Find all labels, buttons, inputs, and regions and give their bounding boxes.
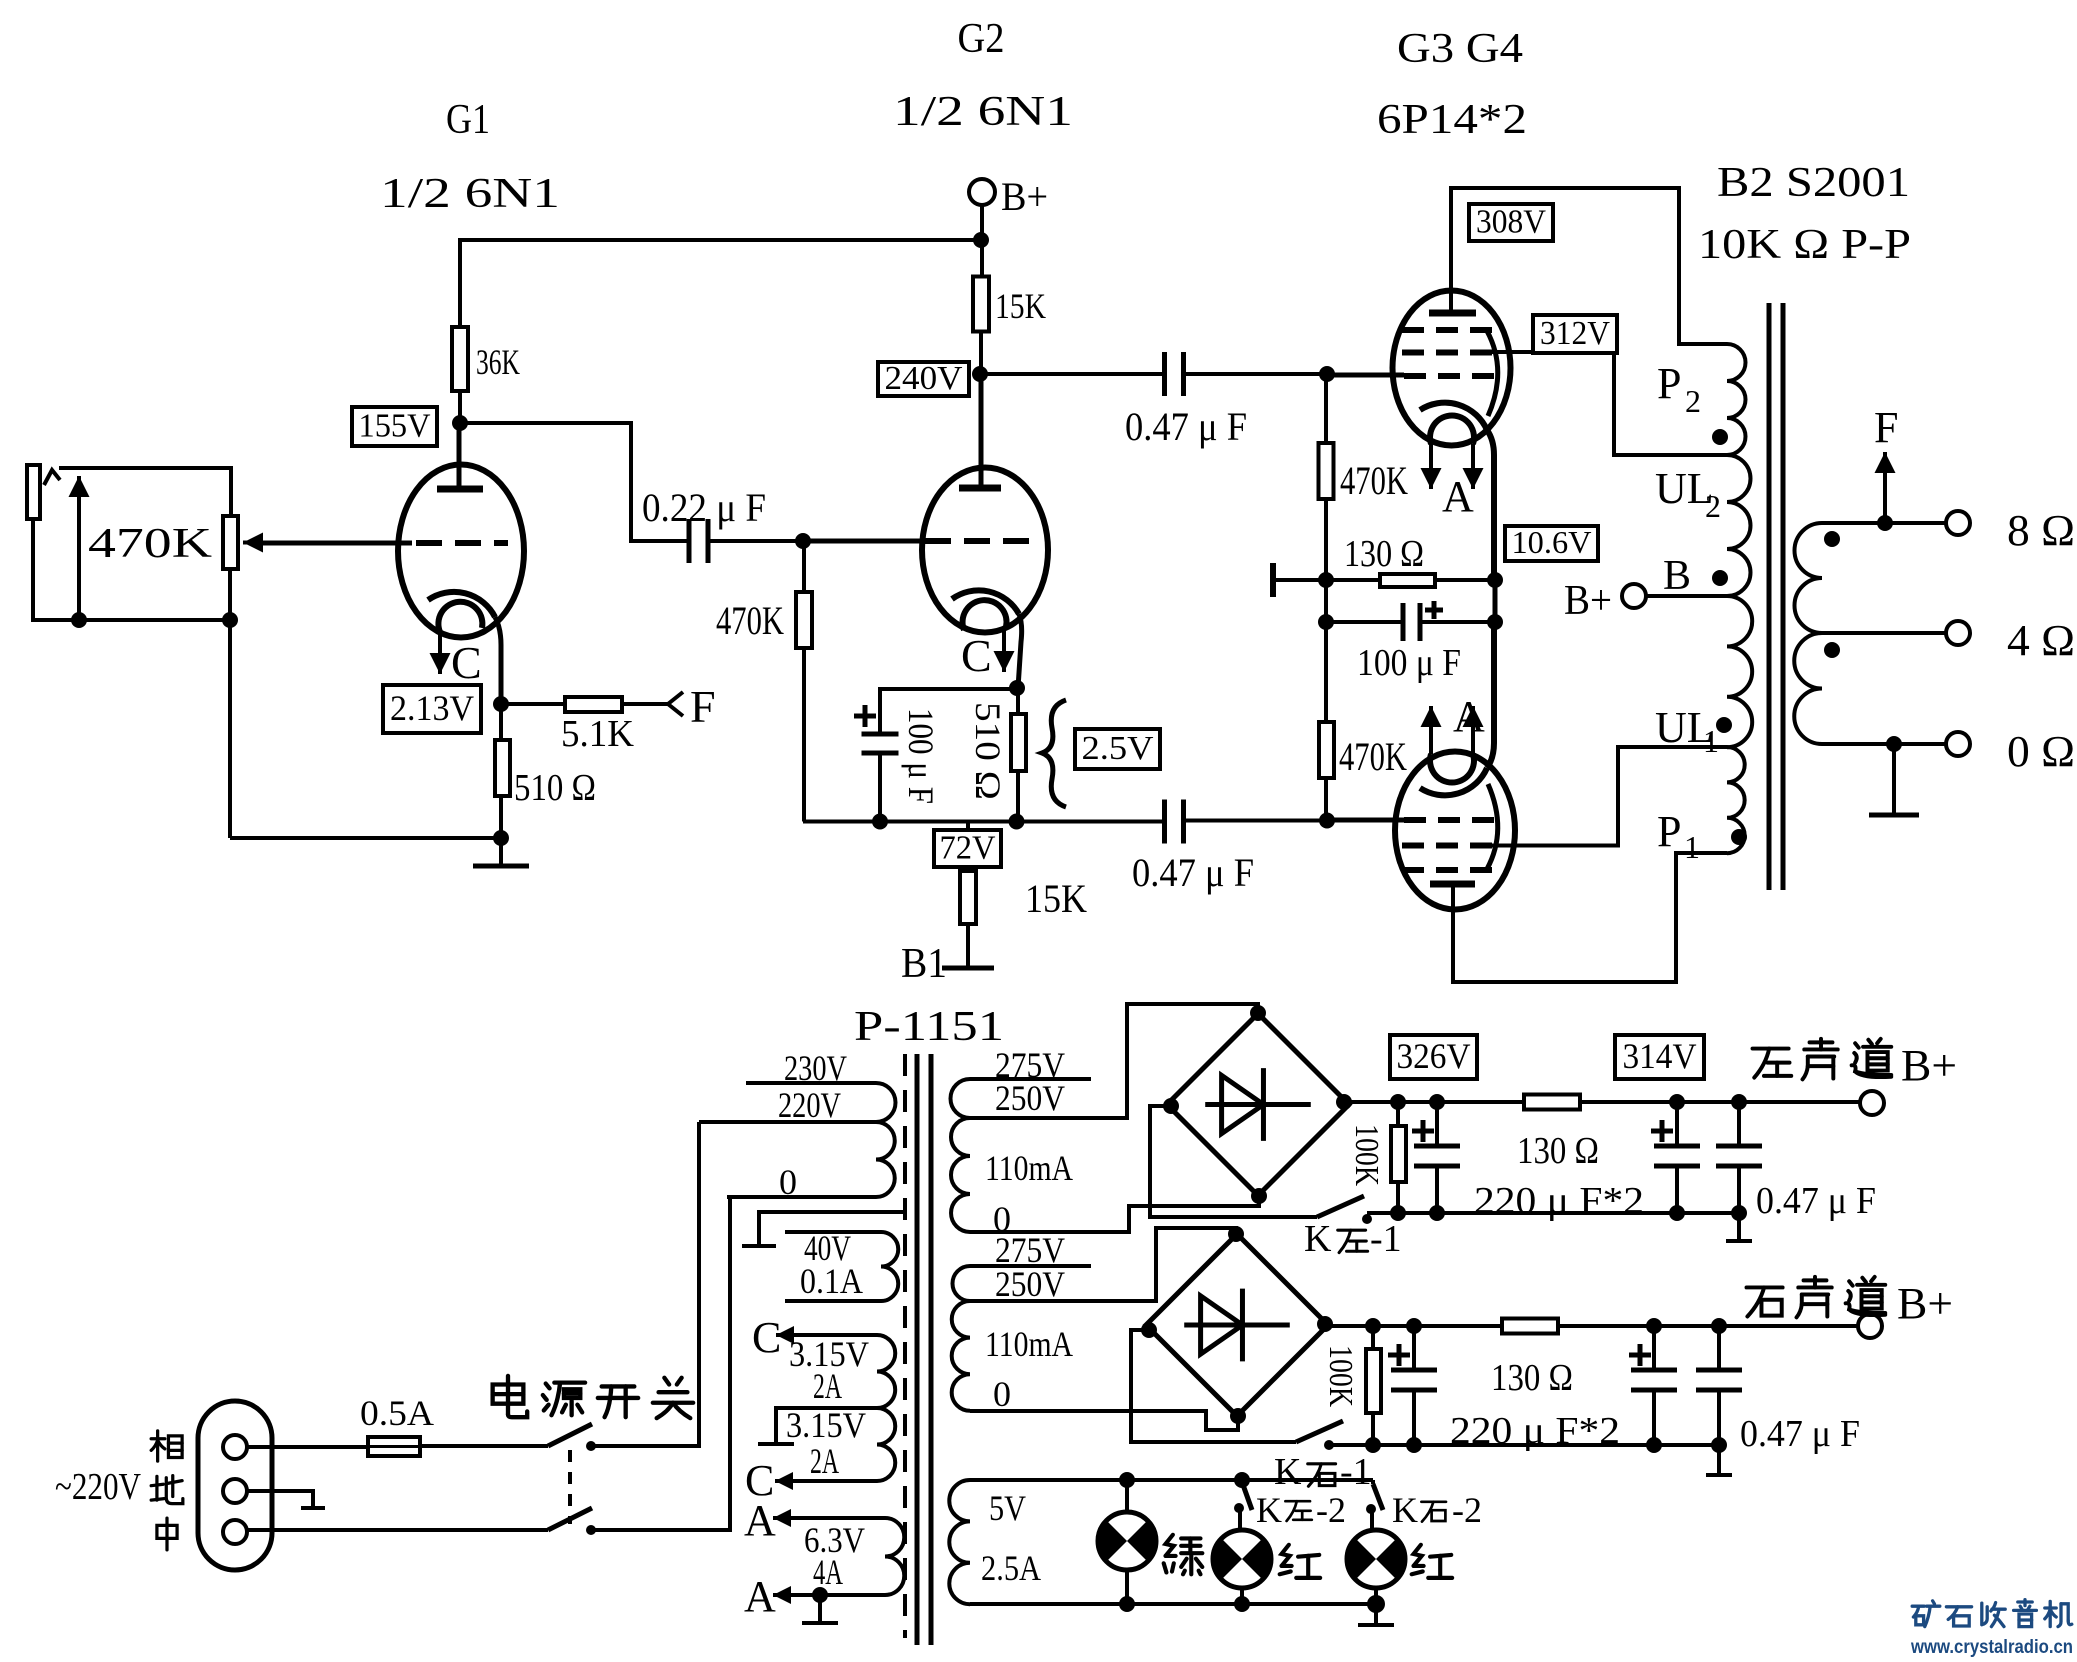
svg-text:0.47 μ F: 0.47 μ F [1756,1180,1876,1222]
svg-text:-2: -2 [1316,1490,1346,1530]
P1 polarity dot [1731,829,1747,845]
svg-text:4A: 4A [813,1552,843,1592]
voltage box 326V [1390,1035,1477,1079]
svg-text:B+: B+ [1564,578,1612,624]
capacitor 220uF-2 left [1669,1094,1685,1110]
HT1 275V tap [970,1077,1091,1081]
heater center tap ground [776,1408,877,1444]
svg-text:0: 0 [993,1374,1011,1414]
svg-text:0.1A: 0.1A [800,1261,863,1301]
G3 cathode lead [1487,430,1494,580]
wire R8 to 130ohm node [1324,499,1328,580]
node heater ground [812,1587,828,1603]
svg-text:314V: 314V [1623,1036,1697,1076]
svg-text:1/2 6N1: 1/2 6N1 [893,89,1073,135]
B1 core [903,1054,907,1638]
svg-text:B: B [1663,553,1691,599]
resistor R5 15K [980,240,984,277]
wire R9 top to 100uF node [1324,622,1328,722]
HT1 winding [951,1079,971,1118]
svg-text:3.15V: 3.15V [786,1405,866,1445]
node 130ohm left [1318,572,1334,588]
wire cathode bus G1 [499,796,503,838]
svg-text:100K: 100K [1348,1124,1385,1186]
wire switch pole1 to 220V tap [591,1122,699,1446]
G3 suppressor arc [1487,331,1498,416]
switch K-left-1 [1317,1196,1364,1217]
potentiometer RP1 470K [223,516,238,569]
svg-text:F: F [1874,403,1898,452]
svg-text:A: A [744,1496,776,1545]
svg-text:130 Ω: 130 Ω [1491,1357,1573,1399]
svg-text:C: C [961,630,992,681]
svg-text:A: A [744,1572,776,1621]
HT2 0 tap [970,1411,1238,1430]
svg-text:470K: 470K [1340,458,1408,503]
svg-text:5V: 5V [989,1488,1026,1528]
svg-text:4 Ω: 4 Ω [2007,616,2075,665]
svg-text:0.47 μ F: 0.47 μ F [1125,404,1247,449]
node ground junction G1 [493,830,509,846]
svg-text:A: A [1442,472,1474,521]
wire lower rail to C4 [1017,820,1166,824]
node 240V [972,366,988,382]
voltage box 308V [1469,204,1553,241]
svg-text:15K: 15K [1025,876,1087,921]
B1 primary 230V tap [746,1081,876,1085]
ground G1 [499,838,503,866]
svg-text:1: 1 [1703,723,1719,759]
winding 6.3V [885,1518,904,1595]
resistor R10 130 ohm [1327,578,1380,582]
node C2 bottom [872,814,888,830]
G3 grid dashes [1402,327,1492,333]
G3 heater arrows A [1429,444,1433,489]
switch K-left-2 [1234,1472,1250,1488]
wire cathode to bypass cap [880,689,1017,734]
0 tap [727,1195,876,1199]
B2 primary winding P2 section [1727,344,1746,455]
voltage box 2.13V [383,685,481,733]
node G1 cathode 2.13V [493,696,509,712]
power switch label [493,1376,528,1417]
ground speaker [1892,744,1896,815]
svg-text:0: 0 [779,1162,797,1202]
ground right filter [1717,1445,1721,1475]
winding 3.15V upper [877,1335,895,1408]
switch K-right-2 [1371,1480,1375,1484]
wire G3 plate to transformer top [1451,188,1727,344]
G4 suppressor arc [1487,784,1498,869]
G4 cathode arc [1420,768,1487,795]
node 155V [452,415,468,431]
fuse 0.5A [247,1445,368,1449]
svg-text:2.13V: 2.13V [390,688,474,728]
wire neutral to switch pole2 [247,1528,548,1532]
feedback terminal F fork [668,692,683,716]
lamp L1 green [1119,1472,1135,1488]
HT2 275V tap [970,1264,1091,1268]
voltage box 10.6V [1505,526,1598,561]
svg-text:8 Ω: 8 Ω [2007,506,2075,555]
B1 primary winding upper [876,1083,896,1122]
svg-text:1/2 6N1: 1/2 6N1 [380,171,560,217]
svg-text:www.crystalradio.cn: www.crystalradio.cn [1910,1637,2073,1657]
G1 cathode lead [495,617,501,704]
input jack J1 [27,465,40,519]
bottom rail G2 [803,820,1167,824]
bridge rectifier D1 left channel [1167,1014,1349,1196]
capacitor C1 0.22uF [689,519,708,563]
svg-text:220V: 220V [778,1085,841,1125]
B2 primary winding UL2 section [1727,455,1750,596]
right channel +rail [1325,1324,1870,1328]
svg-text:K: K [1304,1218,1332,1260]
svg-text:B+: B+ [1001,174,1048,219]
wire R6 to bottom rail [1016,771,1020,822]
grid dashes G1 [416,540,508,546]
svg-text:1: 1 [1684,829,1700,865]
brace 2.5V [1042,700,1066,807]
svg-text:2.5A: 2.5A [981,1548,1041,1588]
svg-text:5.1K: 5.1K [561,713,635,755]
G3 cathode arc [1420,403,1487,430]
svg-text:~220V: ~220V [55,1466,141,1508]
node 130ohm right [1487,572,1503,588]
capacitor 0.47uF right [1711,1318,1727,1334]
wire 0V rail right channel [1329,1443,1719,1447]
svg-text:130 Ω: 130 Ω [1344,533,1424,575]
G4 heater arrows A [1429,706,1433,754]
ground G2 divider [966,924,970,968]
winding 3.15V lower [877,1408,895,1481]
node C5 right [1487,614,1503,630]
capacitor C5 100uF cathode [1327,620,1403,624]
terminal B+ top [969,179,995,205]
tube G3 envelope [1393,291,1511,446]
8 ohm tap [1822,521,1946,525]
svg-text:-2: -2 [1452,1490,1482,1530]
svg-text:0.47 μ F: 0.47 μ F [1740,1413,1860,1455]
node C5 left [1318,614,1334,630]
node 0 ohm ground [1886,736,1902,752]
mains labels [151,1431,182,1461]
svg-text:P: P [1657,359,1681,408]
terminal left channel B+ [1860,1091,1884,1115]
wire switch pole2 to 0 tap [591,1197,730,1530]
svg-text:0.5A: 0.5A [360,1393,434,1433]
G1 cathode arc [428,592,495,617]
svg-text:B+: B+ [1897,1279,1953,1328]
lamp L3 red label [1412,1545,1452,1578]
svg-text:G2: G2 [958,16,1005,62]
svg-text:0.22 μ F: 0.22 μ F [642,485,766,530]
svg-text:100K: 100K [1322,1345,1359,1407]
resistor R2 5.1K [565,697,622,712]
voltage box 72V [966,822,970,872]
svg-text:0.47 μ F: 0.47 μ F [1132,850,1254,895]
wire D2 negative to switch [1131,1330,1296,1442]
svg-text:G3 G4: G3 G4 [1397,26,1523,72]
wire jack bottom to ground bus [33,519,230,620]
resistor R7 15K lower [960,871,976,924]
node R6 bottom [1009,814,1025,830]
node lamp ground [1367,1595,1385,1613]
wire top rail G1-G2 [460,240,983,423]
svg-text:100 μ F: 100 μ F [1357,642,1461,684]
svg-text:110mA: 110mA [985,1324,1073,1364]
capacitor 220uF-2 right [1646,1318,1662,1334]
resistor R6 510 ohm G2 [1016,688,1020,714]
secondary polarity dots [1824,531,1840,547]
node pot bottom junction [222,612,238,628]
node G2 cathode [1009,680,1025,696]
node B+ rail [973,232,989,248]
svg-text:2.5V: 2.5V [1082,730,1154,767]
wire pot bottom down to cathode bus [228,569,232,838]
B tap B+ terminal [1622,584,1646,608]
svg-text:250V: 250V [995,1078,1065,1118]
wire jack top to pot [59,468,231,516]
heater tap A1 [773,1516,885,1520]
svg-text:K: K [1392,1490,1418,1530]
node feedback F [1877,515,1893,531]
svg-text:308V: 308V [1476,204,1546,241]
svg-text:K: K [1274,1451,1302,1493]
wire cathode column [1324,580,1328,622]
svg-text:K: K [1256,1490,1282,1530]
shield ground [759,1212,905,1246]
wire 0V rail left channel [1367,1211,1739,1215]
svg-text:B2 S2001: B2 S2001 [1717,160,1910,206]
wire 15K to 240V node [979,332,983,375]
switch K-right-1 [1296,1421,1343,1442]
jack arrow [77,476,81,620]
G2 cathode arc [952,590,1019,614]
resistor R9 470K G4 grid [1324,778,1328,820]
resistor R4 470K grid G2 [802,541,806,592]
svg-text:10K Ω P-P: 10K Ω P-P [1698,222,1911,268]
lamp winding 5V [970,1478,1373,1482]
svg-text:312V: 312V [1540,315,1610,352]
G2 plate lead [979,374,984,488]
resistor R8 470K G3 grid [1324,374,1328,443]
svg-text:10.6V: 10.6V [1512,524,1592,560]
G4 plate bar [1430,881,1475,888]
G4 cathode lead [1487,622,1494,768]
svg-text:2A: 2A [813,1366,842,1406]
svg-text:240V: 240V [885,360,963,397]
mains plug [198,1401,272,1570]
HT1 250V tap [970,1004,1258,1118]
tube G2 envelope [922,468,1048,633]
svg-text:2: 2 [1705,488,1721,524]
left channel +rail [1344,1100,1872,1104]
svg-text:2A: 2A [810,1441,839,1481]
voltage box 240V [878,362,969,396]
G1 plate [457,423,462,489]
power switch pole1 [548,1424,592,1446]
4 ohm tap [1822,631,1946,635]
svg-text:F: F [690,681,716,732]
svg-text:470K: 470K [88,521,212,567]
UL1 polarity dot [1716,717,1732,733]
B2 core [1769,303,1783,890]
resistor 130 ohm right [1502,1319,1558,1334]
G4 screen wire to UL1 [1480,747,1727,846]
voltage box 155V [352,407,437,446]
capacitor C4 0.47uF lower [1165,800,1184,844]
pot wiper arrow [243,541,330,545]
bridge rectifier D2 right channel [1146,1234,1328,1416]
voltage box 312V [1533,315,1617,353]
svg-text:B1: B1 [901,941,947,987]
heater tap C2 [775,1479,877,1483]
svg-text:C: C [451,637,482,688]
svg-text:110mA: 110mA [985,1148,1073,1188]
capacitor 220uF-1 right [1406,1318,1422,1334]
svg-text:510 Ω: 510 Ω [514,767,596,809]
svg-text:A: A [1453,692,1485,741]
G2 cathode lead [1018,614,1022,688]
lamp L2 red [1238,1508,1242,1530]
svg-text:P-1151: P-1151 [854,1004,1004,1050]
220V tap [699,1120,876,1124]
wire G1 grid [250,541,412,546]
capacitor 0.47uF left [1731,1094,1747,1110]
svg-text:-1: -1 [1370,1218,1402,1260]
svg-text:250V: 250V [995,1264,1065,1304]
0 ohm tap [1822,742,1946,746]
wire C4 to G4 grid [1184,819,1328,823]
wire C3 to G3 grid [1184,372,1328,376]
svg-text:220 μ F*2: 220 μ F*2 [1450,1410,1620,1452]
svg-text:72V: 72V [940,830,996,867]
svg-text:220 μ F*2: 220 μ F*2 [1474,1180,1644,1222]
wire R4 to bottom rail [802,648,806,822]
node G3 grid [1319,366,1335,382]
wire cathode to 5.1K [501,702,565,706]
svg-text:B+: B+ [1901,1041,1957,1090]
G3 screen wire to 312V UL2 [1480,352,1727,455]
svg-text:100 μ F: 100 μ F [901,708,941,804]
resistor 100K right [1365,1318,1381,1334]
capacitor C2 100uF bypass [862,734,899,753]
resistor 130 ohm left [1524,1095,1580,1110]
heater tap C1 [776,1333,877,1337]
node G4 grid [1319,813,1335,829]
svg-text:155V: 155V [359,408,431,445]
HT1 0 tap [970,1196,1259,1232]
G2 plate bar [959,485,1001,492]
terminal right channel B+ [1858,1314,1882,1338]
svg-text:130 Ω: 130 Ω [1517,1130,1599,1172]
wire D1 negative to switch [1150,1106,1317,1217]
G2 cathode arrow C [1002,630,1006,672]
capacitor C3 0.47uF upper [1165,352,1184,396]
B2 primary winding UL1 section [1727,747,1745,853]
voltage box 314V [1615,1035,1704,1079]
node G2 grid [795,533,811,549]
resistor R3 510 ohm [499,704,503,740]
HT2 250V tap [970,1228,1236,1301]
tube G4 envelope [1395,752,1515,910]
wire 155V node to coupling cap [460,423,689,541]
resistor 100K left [1390,1094,1406,1110]
winding 40V [785,1230,881,1234]
svg-text:G1: G1 [446,97,490,143]
resistor R1 36K [452,327,468,391]
tube G1 envelope [398,465,524,638]
B section polarity dot [1712,570,1728,586]
svg-text:470K: 470K [1339,734,1407,779]
svg-text:326V: 326V [1397,1036,1471,1076]
svg-text:0 Ω: 0 Ω [2007,727,2075,776]
watermark crystalradio [1912,1601,1940,1627]
wire B+ to rail [980,205,984,240]
power switch pole2 [548,1508,592,1530]
lamp bottom rail [970,1602,1376,1606]
svg-text:C: C [752,1313,781,1362]
terminal bar to other channel [1270,563,1276,597]
feedback arrow F [1883,452,1887,523]
P2 polarity dot [1712,429,1728,445]
svg-text:510 Ω: 510 Ω [968,702,1008,800]
svg-text:470K: 470K [716,598,784,643]
G4 plate wire to P1 [1453,853,1727,982]
ground left filter [1737,1213,1741,1241]
svg-text:230V: 230V [784,1048,847,1088]
grid dashes G2 [925,538,1034,544]
wire 5.1K to F [622,702,668,706]
svg-text:-1: -1 [1340,1451,1372,1493]
wire cap C1 to G2 grid [708,539,803,543]
svg-text:P: P [1657,807,1681,856]
switch link dashed [568,1450,572,1524]
earth pin wire [247,1491,313,1508]
capacitor 220uF-1 left [1429,1094,1445,1110]
lamp L3 red [1370,1509,1374,1530]
G3 plate bar [1429,310,1476,317]
wire 240V node to C3 [980,372,1165,376]
svg-text:15K: 15K [995,286,1046,326]
B2 secondary winding [1795,523,1823,633]
wire fuse to switch [420,1444,548,1448]
G1 cathode arrow C [438,632,442,674]
wire C2 to bottom rail [878,753,882,822]
svg-text:2: 2 [1685,383,1701,419]
heater tap A2 [773,1593,885,1597]
svg-text:36K: 36K [476,342,520,382]
voltage box 2.5V [1075,729,1160,769]
B2 primary winding B section [1727,596,1752,747]
svg-text:6P14*2: 6P14*2 [1377,97,1527,143]
G4 grid dashes [1404,817,1494,823]
node jack-ground junction [71,612,87,628]
